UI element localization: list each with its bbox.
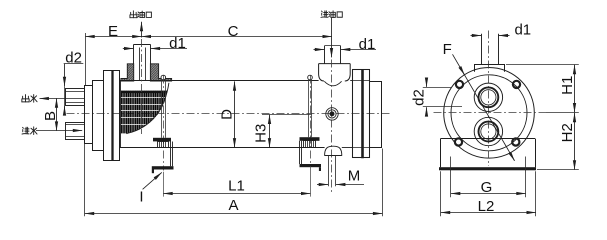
drain stub pipe [328,156,330,187]
dimension C [142,36,332,38]
base block [440,138,535,140]
svg-text:G: G [481,179,493,196]
right tie rod centerline [310,76,312,165]
dimension B [56,98,58,131]
label jin-shui water in with arrow [22,127,29,134]
svg-text:A: A [228,197,238,214]
label jin-you-kou oil inlet [321,11,328,17]
right flange center thick line [361,70,364,158]
dimension d1 left [123,48,134,50]
shell cylinder bottom line [119,147,325,149]
drain boss dome [325,146,342,156]
oil inlet stub pipe [324,46,326,64]
water box end cover step 1 [85,86,93,144]
svg-text:H3: H3 [252,124,269,143]
end view horizontal centerline [434,112,547,114]
label chu-you-kou oil outlet [130,11,137,18]
right bracket foot lip [319,167,321,171]
bolt hole lower left [455,138,462,145]
dimension d1 end view [471,35,482,37]
oil inlet leader arrow [331,18,333,58]
dimension L2 [441,212,536,214]
extension lines d2 end view [423,87,451,89]
left bracket nut [158,142,169,148]
svg-text:d2: d2 [410,89,427,106]
label I with leader [143,172,162,189]
right mounting bracket top plate [300,137,320,141]
svg-text:E: E [108,23,118,40]
extension line H3 center [262,114,312,116]
extension lines L2 [440,171,442,216]
svg-text:L2: L2 [478,198,495,215]
svg-text:B: B [42,111,59,121]
right bracket web [299,141,301,164]
dimension H1 [574,65,576,113]
oil outlet port neck left hatched wall [121,64,134,81]
left bracket foot lip [152,170,154,174]
end view inner circle [451,75,527,151]
oil inlet port centerline [331,60,333,193]
oil outlet port neck right hatched wall [150,64,171,81]
svg-text:d1: d1 [359,36,376,53]
dimension H2 [574,113,576,170]
shell cylinder top line [119,80,319,82]
F leader diagonal line [453,54,515,160]
left bracket foot [152,166,174,169]
svg-text:D: D [218,109,235,120]
svg-text:d2: d2 [65,50,82,67]
svg-text:d1: d1 [514,21,531,38]
water box end cover step 2 [93,81,104,151]
svg-text:H2: H2 [559,123,576,142]
main horizontal centerline [67,113,392,115]
sight plug center dot [330,112,334,116]
right tie rod [308,80,310,137]
left tie rod top circle [161,75,166,80]
svg-text:d1: d1 [169,35,186,52]
svg-text:H1: H1 [559,76,576,95]
end view oil stub pipe [481,34,483,65]
bolt hole lower right [512,138,519,145]
right bracket foot [300,164,322,167]
dimension D [234,81,236,147]
water inlet pipe stub [66,123,85,140]
bolt hole upper left [456,81,463,88]
extension lines H1 H2 [506,64,579,66]
extension line left face lower [84,144,86,217]
oil outlet bore lines [139,48,141,82]
label chu-shui water out with arrow [22,95,29,102]
top water port circles [474,83,502,111]
dimension M [317,184,328,186]
right flange shell level lines [353,80,370,82]
svg-text:F: F [443,41,452,58]
end view top boss [474,64,505,66]
extension line right bracket [310,167,312,197]
water box flange pair [104,71,120,161]
svg-text:I: I [139,189,143,206]
dimension d2 end view [426,78,428,87]
tube bundle hatch area [121,91,169,134]
oil outlet port centerline [141,39,143,134]
section break curve [126,83,169,134]
left mounting bracket top plate [153,138,171,142]
left bracket web [170,138,172,166]
base bottom thick plate [439,167,536,170]
bottom water port circles [474,117,502,145]
dimension L1 [163,193,310,195]
oil outlet stub pipe [133,44,135,63]
oil outlet leader arrow up [141,22,143,38]
oil inlet dome bottom arc [324,81,341,86]
svg-text:C: C [228,23,239,40]
sight plug ring [328,110,336,118]
end view outer flange circle [444,68,535,159]
right end cap [370,82,382,148]
extension line left face upper [85,33,87,85]
extension lines G [450,157,452,198]
extension line right cap [382,149,384,217]
left tie rod centerline [163,76,165,171]
right flange ring [353,70,370,158]
flange gasket joint thick line [111,71,113,161]
dimension H3 [269,115,271,148]
right bracket nut [304,141,316,148]
bolt hole upper right [513,81,520,88]
tube sheet line [120,81,122,148]
dimension A [85,213,383,215]
dimension E [85,36,141,38]
left tie rod [161,80,163,138]
sight plug outer circle [326,108,338,120]
water outlet pipe stub [66,89,85,106]
dimension G [451,193,526,195]
svg-text:M: M [348,168,361,185]
end view vertical centerline [488,31,490,167]
dimension d1 right [314,49,325,51]
svg-text:L1: L1 [228,178,245,195]
oil inlet dome boss [319,63,351,65]
right tie rod top circle [308,75,313,80]
extension line left bracket [163,172,165,197]
